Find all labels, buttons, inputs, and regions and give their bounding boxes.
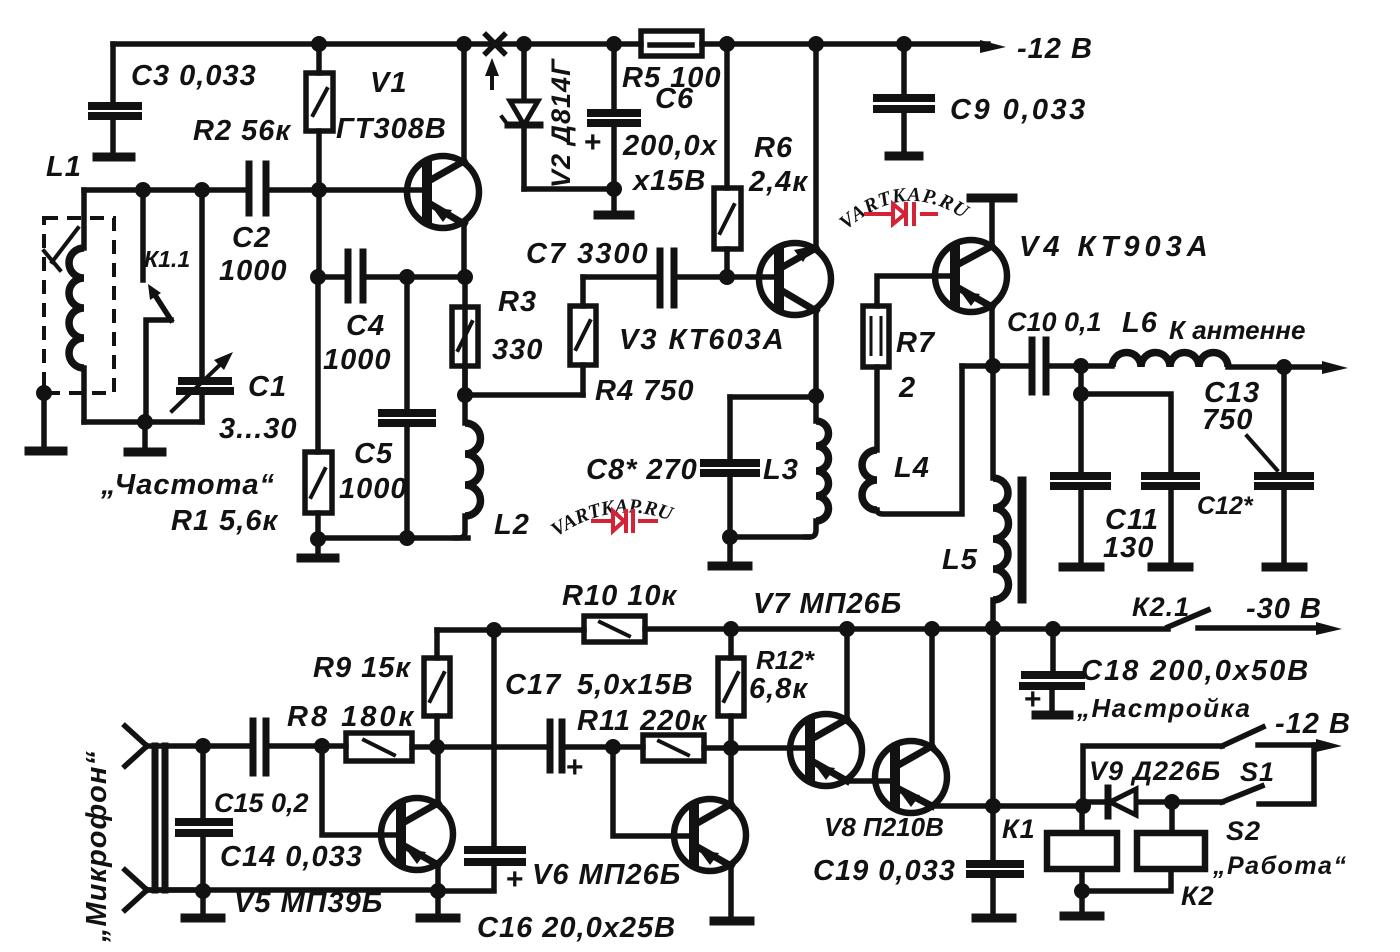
shield dashed box L1: [44, 218, 114, 393]
node rail-C6: [606, 36, 622, 52]
svg-text:1000: 1000: [219, 255, 288, 287]
node R9 foot: [429, 739, 445, 755]
svg-text:5,0x15В: 5,0x15В: [577, 669, 694, 701]
svg-text:L1: L1: [46, 151, 82, 183]
resistor R7: [863, 306, 889, 367]
wire V4 emitter node: [962, 307, 1029, 366]
svg-text:V6 МП26Б: V6 МП26Б: [532, 859, 681, 891]
svg-text:V1: V1: [370, 67, 407, 99]
arrow -12V top: [980, 40, 1006, 53]
wire mic foot (y891): [147, 887, 438, 893]
svg-text:C9 0,033: C9 0,033: [950, 94, 1088, 126]
node rail-V2: [516, 36, 532, 52]
resistor R2: [316, 44, 322, 190]
transistor V8: [875, 741, 947, 813]
svg-text:R8 180к: R8 180к: [287, 701, 416, 733]
microphone connector bottom: [125, 870, 203, 910]
ground C6: [611, 189, 617, 212]
wire tank bottom: [730, 534, 808, 540]
transistor V5: [381, 798, 453, 870]
capacitor C2: [249, 164, 266, 213]
wire antenna out: [1228, 364, 1330, 370]
wire relay feet: [1082, 869, 1171, 891]
svg-text:C3 0,033: C3 0,033: [131, 60, 257, 92]
wire audio line (y747): [437, 744, 643, 750]
capacitor C17: [550, 722, 562, 770]
switch S1: [1222, 727, 1263, 746]
svg-text:R3: R3: [498, 286, 537, 318]
svg-text:К1: К1: [1002, 814, 1036, 844]
svg-text:R2 56к: R2 56к: [193, 115, 291, 147]
svg-text:L4: L4: [894, 452, 930, 484]
svg-text:C18 200,0x50В: C18 200,0x50В: [1081, 655, 1310, 687]
svg-text:L5: L5: [942, 544, 978, 576]
variometer arrow L1: [44, 228, 78, 270]
svg-text:R7: R7: [896, 327, 936, 359]
break mark x with A: [486, 35, 504, 53]
wire V6 base branch: [613, 747, 694, 836]
svg-text:2,4к: 2,4к: [748, 166, 808, 198]
svg-text:x15В: x15В: [631, 165, 706, 197]
svg-text:К2: К2: [1181, 881, 1215, 911]
svg-text:+: +: [566, 751, 585, 784]
transistor V1: [407, 156, 479, 228]
inductor L4: [862, 450, 877, 510]
svg-text:+: +: [584, 126, 603, 159]
svg-text:С5: С5: [354, 438, 393, 470]
wire relay frame: [1083, 746, 1222, 806]
wire V1 collector to rail: [461, 44, 467, 161]
capacitor C19: [990, 806, 996, 915]
svg-text:„Настройка: „Настройка: [1076, 693, 1251, 723]
capacitor C16: [468, 850, 522, 862]
svg-text:R9 15к: R9 15к: [313, 652, 411, 684]
svg-text:C4: C4: [346, 310, 385, 342]
switch S2: [1222, 786, 1262, 802]
watermark arc 2: [542, 512, 718, 550]
svg-text:C19 0,033: C19 0,033: [813, 855, 956, 887]
svg-text:330: 330: [492, 334, 543, 366]
diode V9: [1083, 799, 1222, 805]
microphone element: [155, 746, 165, 890]
svg-text:750: 750: [1202, 404, 1253, 436]
wire L5 foot down: [990, 628, 996, 806]
wire V4 base loop: [877, 276, 955, 306]
wire V6 collector: [728, 748, 734, 804]
svg-text:C10 0,1: C10 0,1: [1007, 307, 1102, 337]
svg-text:C17: C17: [505, 669, 562, 701]
ground tank: [727, 537, 733, 562]
node shield-ground: [36, 385, 52, 401]
switch K2.1: [1168, 610, 1208, 627]
svg-text:R1 5,6к: R1 5,6к: [171, 505, 278, 537]
arrow -12V relay: [1258, 742, 1322, 748]
svg-text:V9 Д226Б: V9 Д226Б: [1089, 756, 1221, 786]
svg-text:„Частота“: „Частота“: [100, 469, 275, 501]
svg-text:V8 П210В: V8 П210В: [824, 812, 944, 842]
resistor R3: [452, 307, 478, 366]
wire R3-R4 (y395): [465, 392, 583, 398]
inductor L1: [81, 190, 87, 248]
resistor R12: [728, 629, 734, 748]
svg-text:1000: 1000: [323, 344, 392, 376]
svg-text:L6: L6: [1122, 307, 1158, 339]
wire V2 to C6 foot: [524, 186, 614, 192]
svg-text:C7 3300: C7 3300: [526, 238, 650, 270]
transistor V3: [759, 243, 831, 315]
resistor R6: [724, 44, 730, 277]
wire tank top (y397): [730, 394, 816, 400]
svg-text:К2.1: К2.1: [1132, 592, 1190, 622]
ground K1.1: [142, 422, 148, 449]
svg-text:C14 0,033: C14 0,033: [220, 841, 363, 873]
svg-text:C15 0,2: C15 0,2: [214, 788, 309, 818]
arrow -30V: [1198, 625, 1322, 631]
inductor L3: [813, 397, 819, 421]
svg-text:-12 В: -12 В: [1275, 708, 1351, 740]
svg-text:6,8к: 6,8к: [749, 673, 808, 705]
svg-text:К антенне: К антенне: [1169, 315, 1305, 345]
svg-text:+: +: [506, 863, 525, 896]
svg-text:R11 220к: R11 220к: [577, 705, 707, 737]
svg-text:C2: C2: [232, 222, 271, 254]
wire V3 lower to tank: [813, 311, 819, 397]
ground relays: [1079, 891, 1085, 913]
svg-text:R12*: R12*: [756, 645, 816, 675]
capacitor C12: [1081, 394, 1171, 563]
wire -30V rail (y629): [437, 629, 1168, 630]
wire V6 emitter / ground: [728, 866, 734, 917]
resistor R1: [315, 277, 321, 539]
node rail-V3: [808, 36, 824, 52]
wire V1 emitter down: [461, 224, 467, 276]
ground R1: [315, 539, 321, 554]
svg-text:C8* 270: C8* 270: [586, 454, 698, 486]
node rail-C9: [896, 36, 912, 52]
wire V5 emitter / ground: [435, 865, 441, 915]
resistor R5: [641, 31, 702, 56]
wire oscillator foot (y538): [318, 535, 468, 541]
resistor R4: [580, 277, 586, 395]
wire oscillator top (y190): [84, 187, 427, 193]
svg-text:V4 КТ903А: V4 КТ903А: [1019, 231, 1213, 263]
resistor R9: [434, 630, 440, 748]
node K1.1 ground: [137, 414, 153, 430]
ground shield L1: [41, 393, 47, 448]
capacitor C4: [318, 274, 465, 280]
node rail-R2: [311, 36, 327, 52]
switch K1.1: [140, 190, 146, 280]
svg-text:С16 20,0x25В: С16 20,0x25В: [477, 912, 676, 944]
svg-text:R4 750: R4 750: [595, 375, 695, 407]
svg-text:L2: L2: [494, 509, 530, 541]
svg-text:S2: S2: [1226, 816, 1261, 846]
wire R2 foot to C4 branch: [316, 190, 322, 277]
collector bar V4: [989, 202, 995, 246]
svg-text:R10 10к: R10 10к: [562, 580, 678, 612]
wire C16 branch: [491, 630, 497, 846]
resistor R8: [346, 733, 412, 761]
wire V7 emitter to V8 base: [847, 778, 895, 784]
svg-text:„Микрофон“: „Микрофон“: [81, 750, 113, 943]
svg-text:-12 В: -12 В: [1017, 33, 1093, 65]
watermark diode 1: [864, 202, 938, 226]
svg-text:200,0x: 200,0x: [622, 130, 719, 162]
svg-text:V3 КТ603А: V3 КТ603А: [619, 324, 786, 356]
svg-text:1000: 1000: [339, 473, 408, 505]
capacitor C5: [404, 277, 410, 538]
capacitor C7: [583, 274, 657, 280]
svg-text:„Работа“: „Работа“: [1212, 852, 1347, 880]
watermark diode 2: [591, 509, 658, 533]
watermark arc 1: [836, 201, 992, 244]
wire V8 collector: [929, 629, 935, 746]
svg-text:L3: L3: [763, 454, 799, 486]
svg-text:2: 2: [898, 372, 916, 404]
capacitor C6: [611, 44, 617, 189]
svg-text:R5 100: R5 100: [622, 62, 722, 94]
svg-text:R6: R6: [754, 132, 793, 164]
svg-text:C12*: C12*: [1197, 492, 1254, 520]
wire V5 base branch: [322, 746, 401, 835]
svg-text:-30 В: -30 В: [1246, 593, 1322, 625]
transistor V6: [674, 799, 746, 871]
svg-text:C1: C1: [248, 371, 287, 403]
resistor R11: [643, 735, 704, 761]
svg-text:К1.1: К1.1: [144, 246, 190, 272]
capacitor C14: [195, 738, 211, 754]
wire oscillator bottom (y422): [84, 419, 202, 425]
svg-text:S1: S1: [1240, 757, 1275, 787]
transformer L5: [990, 366, 996, 478]
svg-text:V7 МП26Б: V7 МП26Б: [753, 588, 902, 620]
wire V7 collector: [844, 629, 850, 719]
svg-text:+: +: [1024, 683, 1043, 716]
node R3 foot: [457, 387, 473, 403]
svg-text:V2 Д814Г: V2 Д814Г: [546, 58, 576, 188]
resistor R10: [584, 616, 645, 642]
wire V3 upper to rail: [813, 44, 819, 248]
zener V2: [521, 44, 527, 189]
inductor L6: [1112, 353, 1228, 368]
capacitor C10: [1032, 340, 1046, 392]
microphone connector top: [125, 726, 249, 766]
svg-text:130: 130: [1103, 532, 1154, 564]
inductor L2: [462, 277, 468, 423]
svg-text:ГТ308В: ГТ308В: [336, 113, 447, 145]
relay coil K2: [1169, 802, 1175, 833]
capacitor C1 variable: [199, 190, 205, 422]
node R1 ground: [310, 531, 326, 547]
wire V8 emitter (y806): [932, 803, 1083, 809]
node rail-R6: [719, 36, 735, 52]
capacitor C8: [727, 397, 733, 537]
relay coil K1: [1079, 806, 1085, 833]
capacitor C18: [1052, 629, 1053, 712]
capacitor C3: [110, 44, 116, 152]
transistor V4: [935, 240, 1007, 312]
wire V5 collector: [435, 747, 441, 803]
capacitor C13: [1281, 367, 1287, 563]
svg-text:3...30: 3...30: [219, 413, 298, 445]
transistor V7: [790, 714, 862, 786]
wire top -12V rail: [113, 41, 988, 47]
capacitor C11: [1078, 366, 1084, 563]
capacitor C15: [253, 721, 266, 773]
wire S-bracket: [1259, 745, 1314, 804]
capacitor C9: [901, 44, 907, 152]
